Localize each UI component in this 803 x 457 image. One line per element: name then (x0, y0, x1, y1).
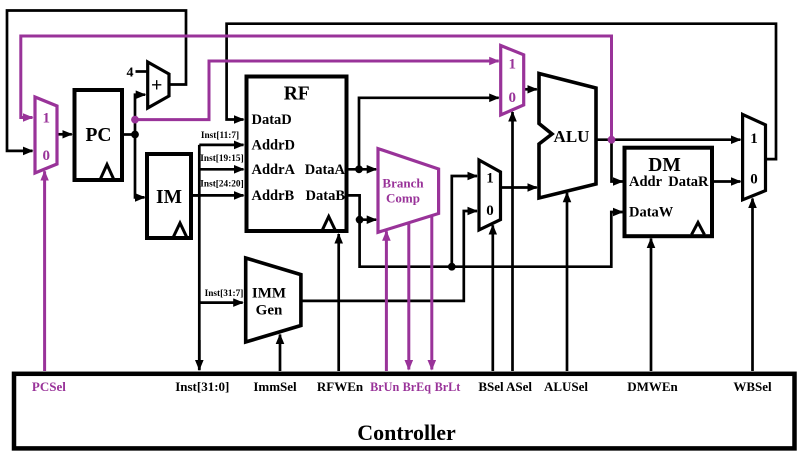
wire ASel mux output to ALU input A (524, 88, 537, 91)
svg-text:DM: DM (648, 155, 681, 176)
svg-text:IMM: IMM (252, 286, 286, 302)
wire PCSel mux output to PC (57, 133, 72, 136)
wire PC output to junction (122, 133, 135, 136)
wire Inst[24:20] to RF AddrB (191, 194, 244, 197)
wire ALU output branch down to DM Addr (612, 140, 623, 182)
svg-text:ALUSel: ALUSel (544, 379, 588, 394)
svg-text:RF: RF (284, 84, 310, 105)
wire BrUn control (385, 231, 388, 371)
wire IM output to instruction bus vertical (191, 194, 199, 197)
clock triangle RF (323, 217, 336, 230)
wire RF DataB down to Branch Comp input B (347, 195, 377, 219)
wire ImmSel control (279, 335, 282, 372)
svg-text:DataB: DataB (306, 188, 346, 204)
wire WBSel control (751, 199, 754, 372)
wire PC junction down to IM input (135, 135, 145, 198)
svg-text:PCSel: PCSel (32, 379, 66, 394)
svg-text:RFWEn: RFWEn (317, 379, 364, 394)
wire BrEq output to controller (407, 224, 410, 370)
wire Inst[31:7] to IMM Gen (199, 301, 242, 304)
node DataB-BSel junction (448, 263, 456, 271)
wire BSel mux output to ALU input B (501, 186, 537, 189)
node DataA junction (355, 165, 363, 173)
wire constant 4 into adder (136, 70, 148, 73)
wire PCSel control (43, 171, 46, 371)
svg-text:BSel: BSel (478, 379, 504, 394)
wire Inst[19:15] to RF AddrA (199, 168, 243, 171)
svg-text:ALU: ALU (554, 127, 590, 146)
svg-text:IM: IM (156, 187, 182, 208)
svg-text:BrUn: BrUn (370, 380, 399, 394)
memory DM (625, 148, 713, 237)
svg-text:ASel: ASel (506, 379, 532, 394)
clock triangle DM (692, 223, 705, 235)
svg-text:1: 1 (486, 171, 494, 187)
svg-text:Inst[31:7]: Inst[31:7] (205, 289, 244, 299)
adder +4 (148, 62, 169, 108)
svg-text:0: 0 (750, 172, 758, 188)
svg-text:4: 4 (127, 66, 134, 81)
wire RF DataA to Branch Comp input A (347, 168, 377, 171)
wire DMWEn control (650, 239, 653, 372)
mux PCSel (35, 97, 57, 173)
svg-text:AddrA: AddrA (252, 162, 296, 178)
svg-text:DMWEn: DMWEn (627, 379, 678, 394)
wire DataB tap up to BSel mux input 1 (452, 176, 477, 267)
svg-text:Branch: Branch (382, 176, 424, 191)
memory IM (147, 154, 191, 238)
wire DataA tap up to ASel mux input 0 (359, 98, 499, 170)
comparator Branch Comp (378, 149, 439, 233)
svg-text:ImmSel: ImmSel (253, 379, 297, 394)
register PC (75, 90, 123, 180)
svg-text:Inst[11:7]: Inst[11:7] (201, 131, 239, 141)
svg-text:+: + (151, 75, 162, 97)
svg-text:0: 0 (43, 148, 51, 164)
node PC purple junction (131, 116, 139, 124)
wire RFWEn control (337, 234, 340, 371)
svg-text:AddrB: AddrB (252, 188, 295, 204)
mux ASel (501, 46, 524, 115)
node DataB junction at Branch Comp input (356, 216, 364, 224)
svg-text:Inst[24:20]: Inst[24:20] (200, 180, 243, 190)
svg-text:DataR: DataR (668, 174, 709, 190)
svg-text:WBSel: WBSel (733, 379, 772, 394)
svg-text:AddrD: AddrD (252, 138, 296, 154)
svg-text:Comp: Comp (386, 191, 420, 206)
svg-text:BrEq: BrEq (403, 380, 432, 394)
wire PC tap purple to ASel mux input 1 (135, 61, 499, 120)
wire DM DataR to WBSel mux input 0 (712, 180, 740, 183)
wire BrLt output to controller (430, 216, 433, 369)
wire WB writeback loop from WBSel mux to RF DataD (227, 24, 776, 159)
mux BSel (479, 160, 501, 230)
wire Inst[11:7] to RF AddrD (199, 144, 243, 147)
svg-text:1: 1 (508, 57, 516, 73)
wire IMM Gen output to BSel mux input 0 (301, 211, 477, 301)
svg-text:DataW: DataW (629, 205, 674, 221)
svg-text:1: 1 (750, 131, 758, 147)
controller box (14, 374, 795, 449)
svg-text:DataD: DataD (252, 112, 292, 128)
clock triangle IM (174, 223, 187, 237)
wire instruction bus vertical down to controller Inst[31:0] (198, 145, 201, 370)
mux WBSel (743, 114, 766, 199)
svg-text:Inst[31:0]: Inst[31:0] (175, 379, 229, 394)
svg-text:Gen: Gen (256, 303, 283, 319)
clock triangle PC (101, 165, 114, 179)
alu ALU (539, 74, 596, 199)
node ALU output purple junction (608, 136, 616, 144)
wire ASel control (511, 112, 514, 371)
wire BSel control (491, 225, 494, 371)
svg-text:DataA: DataA (305, 162, 346, 178)
svg-text:1: 1 (43, 110, 51, 126)
wire PC+4 feedback loop to PCSel mux input 0 (7, 11, 186, 151)
svg-text:Inst[19:15]: Inst[19:15] (200, 154, 243, 164)
svg-text:PC: PC (86, 125, 112, 146)
register file RF (247, 77, 347, 232)
immediate generator IMM Gen (246, 258, 301, 342)
wire ALU result purple loop to PCSel mux input 1 (21, 36, 612, 140)
node PC output junction (131, 131, 139, 139)
wire ALU output to WBSel mux input 1 (596, 138, 740, 141)
svg-text:Addr: Addr (629, 174, 663, 190)
wire ALUSel control (566, 193, 569, 371)
wire DataB down and right to DM DataW (360, 212, 623, 267)
wire PC junction up to +4 adder input (135, 95, 145, 135)
svg-text:Controller: Controller (357, 420, 456, 445)
svg-text:0: 0 (486, 203, 494, 219)
svg-text:0: 0 (508, 90, 516, 106)
svg-text:BrLt: BrLt (435, 380, 461, 394)
